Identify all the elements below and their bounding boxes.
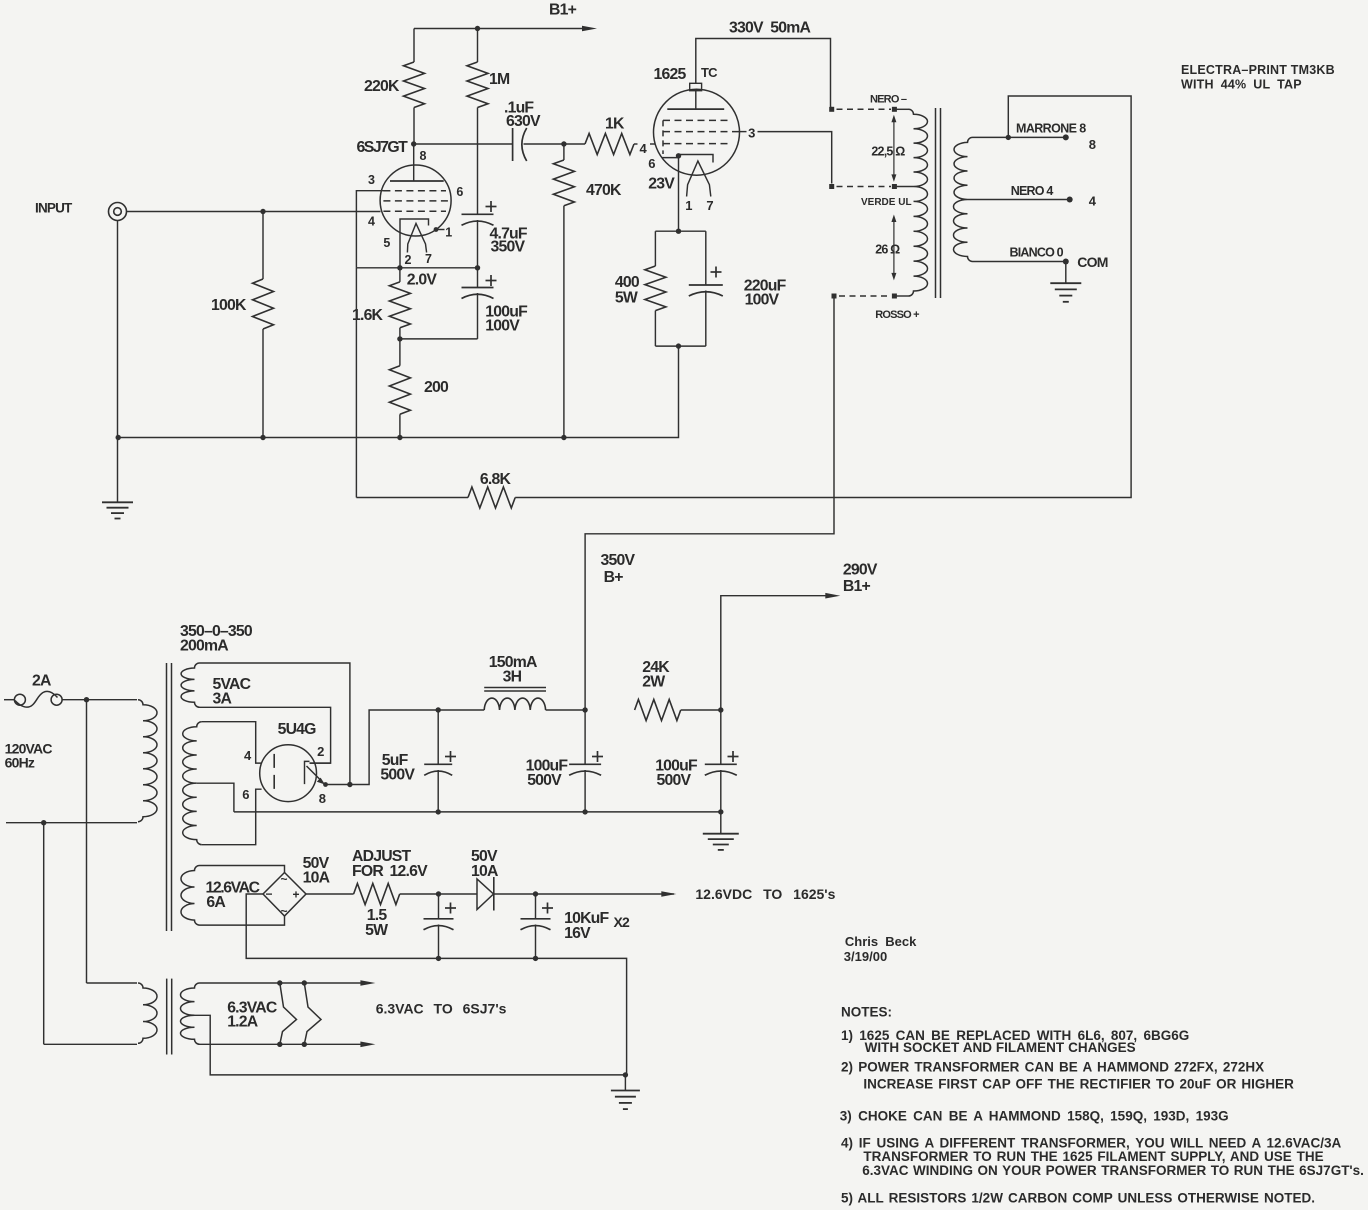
wire [831, 107, 832, 110]
wire 8 ohm tap [973, 136, 1066, 138]
impedance arrow NERO-VERDE [893, 118, 895, 178]
junction [302, 1042, 307, 1047]
1625 plate lead to top cap [695, 91, 697, 109]
ground (input) [102, 501, 133, 503]
svg-text:22,5 Ω: 22,5 Ω [871, 145, 905, 159]
svg-text:3A: 3A [213, 691, 232, 708]
6.3VAC arrow bottom [360, 1042, 375, 1048]
svg-text:6.3VAC WINDING ON YOUR POW: 6.3VAC WINDING ON YOUR POWER TRANSFORMER… [862, 1163, 1364, 1178]
ground (speaker COM) [1050, 282, 1081, 284]
svg-text:350V: 350V [491, 239, 526, 256]
wire bridge negative rail [246, 894, 626, 1075]
wire 400 top lead [654, 231, 656, 266]
junction [623, 1072, 628, 1077]
OPT NERO dashed link [837, 108, 892, 110]
svg-text:3: 3 [368, 173, 375, 187]
wire cap1 top lead [438, 894, 440, 919]
svg-text:10A: 10A [303, 870, 330, 887]
OPT core [935, 108, 937, 298]
junction [1006, 135, 1011, 140]
svg-text:TC: TC [701, 65, 718, 80]
svg-text:INCREASE FIRST CAP OFF THE: INCREASE FIRST CAP OFF THE RECTIFIER TO … [863, 1077, 1294, 1092]
wire to choke [438, 709, 484, 711]
wire pin3 suppressor to box [356, 191, 383, 268]
wire 100uF#1 bottom lead [584, 770, 586, 812]
tube V2 1625 envelope [654, 89, 740, 175]
junction [718, 809, 723, 814]
1625 grid dashed row2 - screen pin 3 [663, 131, 739, 133]
resistor 1M [467, 62, 488, 108]
resistor 220K [404, 62, 425, 108]
junction [436, 809, 441, 814]
capacitor 100uF 500V (1) [569, 763, 601, 765]
junction [116, 435, 121, 440]
1625 cathode filament arrow [687, 161, 711, 197]
junction [277, 1042, 282, 1047]
svg-text:2: 2 [405, 253, 412, 267]
terminal 4 [1067, 197, 1073, 203]
wire hot to T3 primary [86, 700, 88, 983]
svg-text:ELECTRA–PRINT TM3KB: ELECTRA–PRINT TM3KB [1181, 63, 1335, 77]
svg-text:ROSSO +: ROSSO + [875, 309, 919, 321]
290V arrow [825, 593, 840, 599]
wire 470K top lead [563, 144, 565, 160]
wire to 6.8K [356, 497, 468, 499]
svg-text:6SJ7GT: 6SJ7GT [357, 139, 409, 156]
wire 290V B1+ takeoff [721, 596, 828, 710]
twisted pair mark 2 [304, 983, 321, 1044]
6.3VAC arrow top [360, 980, 375, 986]
resistor 470K [553, 160, 574, 206]
wire 6.3VAC center tap to ground [195, 1015, 626, 1075]
svg-text:290V: 290V [843, 562, 878, 579]
svg-text:5: 5 [383, 236, 390, 250]
wire feedback left leg [355, 268, 357, 498]
6SJ7 pin 8 plate lead [413, 144, 415, 181]
svg-text:8: 8 [1089, 137, 1096, 152]
wire 200 top lead [399, 339, 401, 366]
resistor 6.8K [468, 487, 515, 508]
wire 470K bottom lead [563, 206, 565, 438]
svg-text:TRANSFORMER TO RUN THE 162: TRANSFORMER TO RUN THE 1625 FILAMENT SUP… [863, 1149, 1323, 1164]
OPT ROSSO dashed link [839, 295, 891, 297]
T1 primary winding [138, 700, 157, 822]
capacitor 10KuF 16V #1 [424, 918, 454, 920]
wire 100uF top lead [477, 268, 479, 288]
1625 plate [667, 108, 724, 110]
junction [676, 343, 681, 348]
OPT secondary winding [953, 137, 972, 261]
svg-text:B+: B+ [604, 569, 624, 586]
wire 6.3VAC bottom lead [200, 1043, 366, 1045]
wire 100uF bottom lead [477, 293, 479, 339]
OPT primary winding [909, 109, 928, 296]
T3 6.3VAC secondary winding [180, 983, 199, 1044]
wire T3 primary bottom lead [44, 1043, 137, 1045]
junction [582, 809, 587, 814]
svg-text:500V: 500V [380, 767, 415, 784]
junction [676, 229, 681, 234]
6SJ7 grid (dashed) row 1 [383, 190, 446, 192]
svg-text:60Hz: 60Hz [5, 755, 35, 771]
tube V3 5U4G envelope [260, 745, 317, 802]
svg-text:500V: 500V [527, 772, 562, 789]
svg-text:2A: 2A [32, 673, 51, 690]
terminal pad [892, 184, 897, 189]
svg-text:2W: 2W [642, 674, 665, 691]
T1 5VAC winding [181, 663, 199, 707]
svg-text:3: 3 [748, 126, 755, 141]
junction [347, 782, 352, 787]
wire cathode RC bottom [400, 338, 478, 340]
6SJ7 grid (dashed) row 2 - control grid pin 4 [383, 200, 449, 202]
wire 220K top lead [413, 29, 415, 63]
capacitor 100uF 100V [462, 287, 494, 289]
wire 4.7uF bottom lead [477, 220, 479, 268]
svg-text:5W: 5W [615, 290, 638, 307]
svg-text:630V: 630V [506, 113, 541, 130]
svg-text:1625: 1625 [654, 66, 687, 83]
wire choke to node [546, 709, 586, 711]
terminal pad [892, 107, 897, 112]
svg-text:1M: 1M [489, 71, 510, 88]
wire 1.6K bottom lead [399, 328, 401, 339]
wire ROSSO to B+ 350V [585, 296, 834, 709]
svg-text:6A: 6A [206, 894, 225, 911]
wire cap2 top lead [535, 894, 537, 919]
wire 100uF#1 top lead [584, 710, 586, 764]
wire cathode bottom bus [356, 267, 477, 269]
wire 1M top lead [477, 29, 479, 63]
terminal pad [829, 184, 834, 189]
1625 pin3 screen wire [740, 131, 747, 133]
resistor 1.5 5W [354, 884, 400, 905]
wire B1+ rail [414, 28, 585, 30]
svg-text:4: 4 [368, 215, 375, 229]
wire to bottom ground [624, 1075, 626, 1091]
wire cathode net top [655, 230, 705, 232]
wire 200 bottom lead [399, 414, 401, 437]
svg-text:−: − [266, 887, 273, 901]
svg-text:3) CHOKE CAN BE A HAMMOND: 3) CHOKE CAN BE A HAMMOND 158Q, 159Q, 19… [840, 1109, 1229, 1124]
1625 beam plate dashed vertical [662, 120, 664, 154]
wire HV top to 5U4G pin4 [202, 722, 262, 763]
svg-text:6: 6 [242, 787, 249, 802]
wire PSU ground rail [234, 811, 721, 813]
svg-text:~: ~ [281, 904, 288, 918]
svg-text:16V: 16V [564, 925, 591, 942]
svg-text:1K: 1K [605, 116, 625, 133]
svg-text:6: 6 [648, 156, 655, 171]
1625 grid dashed row3 - control grid pin 4 [663, 143, 730, 145]
wire screen to UL tap [758, 132, 832, 184]
svg-text:~: ~ [281, 872, 288, 886]
wire to PSU ground [720, 812, 722, 834]
svg-text:470K: 470K [586, 182, 622, 199]
wire 1K to pin4 [634, 143, 638, 145]
5U4G pin2 lead [310, 762, 331, 764]
junction [561, 435, 566, 440]
wire 100uF#2 bottom lead [720, 770, 722, 812]
wire 5uF bottom lead [437, 770, 439, 812]
6SJ7 cathode bracket [400, 219, 429, 268]
svg-text:5U4G: 5U4G [278, 721, 317, 738]
wire plate top feed [696, 39, 831, 107]
svg-text:Chris Beck: Chris Beck [845, 934, 917, 949]
svg-text:400: 400 [615, 274, 640, 291]
junction plate node 6SJ7 [411, 141, 416, 146]
tube V1 6SJ7GT envelope [380, 165, 451, 236]
5U4G cathode bracket [305, 761, 310, 784]
junction [475, 265, 480, 270]
5U4G plate bar [273, 754, 275, 791]
svg-text:6.8K: 6.8K [480, 471, 512, 488]
terminal 8 [1063, 134, 1069, 140]
ground (heater/bottom) [611, 1090, 640, 1092]
capacitor 5uF 500V [424, 763, 452, 765]
wire cathode net bottom [655, 345, 705, 347]
svg-text:330V 50mA: 330V 50mA [729, 20, 810, 37]
wire plate to coupling cap [414, 143, 513, 145]
svg-text:200mA: 200mA [180, 638, 228, 655]
capacitor 4.7uF 350V [462, 213, 494, 215]
svg-text:3H: 3H [503, 669, 522, 686]
wire T3 primary top lead [87, 982, 138, 984]
resistor 100K [253, 279, 274, 329]
wire 6.3VAC top lead [200, 982, 366, 984]
wire 24K to 290V node [681, 709, 721, 711]
wire cap2 bottom lead [535, 925, 537, 959]
svg-text:7: 7 [425, 252, 432, 266]
svg-text:WITH SOCKET AND FILAMENT C: WITH SOCKET AND FILAMENT CHANGES [865, 1040, 1136, 1055]
wire 12.6VAC bottom to bridge [200, 916, 285, 925]
choke L1 150mA 3H [484, 698, 545, 710]
svg-text:100V: 100V [485, 318, 520, 335]
resistor 1.6K [389, 282, 410, 328]
junction [533, 956, 538, 961]
terminal COM [1063, 259, 1069, 265]
svg-text:500V: 500V [657, 772, 692, 789]
wire into 1625 grid [650, 143, 655, 145]
wire 1625 cathode drop [678, 156, 680, 231]
T1 core [166, 663, 168, 931]
1625 top cap [690, 83, 702, 90]
wire 100uF#2 top lead [720, 710, 722, 764]
junction [84, 697, 89, 702]
wire 1M bottom lead [477, 108, 479, 201]
junction [277, 980, 282, 985]
bridge rectifier BR1 50V 10A [263, 873, 306, 917]
wire to 1K [564, 143, 585, 145]
6SJ7 plate [390, 180, 444, 182]
wire 220uF bottom lead [705, 291, 707, 347]
svg-text:220K: 220K [364, 78, 400, 95]
wire 220K bottom lead [413, 108, 415, 145]
wire 4.7uF top lead [477, 201, 479, 215]
junction [561, 141, 566, 146]
wire diode to 12.6VDC out [494, 893, 675, 895]
svg-text:12.6VDC TO 1625's: 12.6VDC TO 1625's [695, 886, 835, 902]
T1 12.6VAC winding [181, 866, 200, 926]
wire HV center tap to ground rail [197, 783, 234, 812]
wire cap1 bottom lead [438, 925, 440, 959]
wire input ground drop [117, 221, 119, 503]
junction [676, 153, 681, 158]
terminal pad [832, 294, 837, 299]
junction [434, 227, 439, 232]
capacitor 10KuF 16V #2 [521, 918, 551, 920]
svg-text:3/19/00: 3/19/00 [844, 949, 887, 964]
junction [41, 820, 46, 825]
svg-text:350V: 350V [601, 552, 636, 569]
svg-text:2.0V: 2.0V [407, 272, 438, 289]
12.6VDC arrow [661, 891, 676, 897]
svg-text:INPUT: INPUT [35, 201, 73, 216]
input jack connector [109, 203, 127, 221]
svg-text:VERDE UL: VERDE UL [861, 197, 912, 208]
svg-text:1.2A: 1.2A [227, 1014, 258, 1031]
wire 100K top lead [262, 212, 264, 280]
resistor 400 5W [645, 266, 666, 311]
wire neutral to T3 primary [43, 823, 45, 1045]
junction [260, 435, 265, 440]
svg-text:8: 8 [319, 791, 326, 806]
wire common tap [973, 261, 1066, 263]
svg-text:6: 6 [456, 185, 463, 199]
svg-text:COM: COM [1077, 254, 1107, 270]
wire 400 bottom lead [654, 311, 656, 347]
wire 4 ohm tap [968, 199, 1070, 201]
resistor 24K 2W [635, 700, 681, 721]
svg-text:NOTES:: NOTES: [841, 1005, 892, 1020]
6SJ7 grid (dashed) row 3 [383, 210, 446, 212]
svg-text:WITH 44% UL TAP: WITH 44% UL TAP [1181, 78, 1302, 92]
1625 pin6 lead [662, 157, 679, 159]
wire mains neutral [6, 822, 137, 824]
5U4G pin 8 node [323, 782, 328, 787]
svg-text:B1+: B1+ [549, 2, 577, 19]
OPT primary winding leads [894, 108, 908, 110]
wire 5VAC bottom lead to pin2 [200, 707, 331, 763]
resistor 1K [585, 134, 634, 155]
wire bridge out to 1.5ohm [306, 893, 354, 895]
T3 primary winding [138, 983, 157, 1043]
B1+ arrow [582, 26, 597, 32]
wire rectifier output [327, 710, 439, 785]
junction [436, 891, 441, 896]
wire 220uF top lead [705, 231, 707, 285]
wire 1.5 to diode [400, 893, 477, 895]
svg-text:23V: 23V [648, 176, 675, 193]
wire feedback from 8ohm tap [515, 96, 1131, 498]
capacitor 100uF 500V (2) [705, 763, 737, 765]
junction [397, 435, 402, 440]
svg-text:2) POWER TRANSFORMER CAN B: 2) POWER TRANSFORMER CAN BE A HAMMOND 27… [841, 1060, 1264, 1075]
junction [302, 980, 307, 985]
svg-text:200: 200 [424, 379, 449, 396]
junction [533, 891, 538, 896]
svg-text:+: + [293, 888, 300, 902]
wire 100K bottom lead [262, 329, 264, 438]
svg-text:2: 2 [317, 744, 324, 759]
1625 cathode bracket [679, 155, 714, 163]
svg-text:5) ALL RESISTORS 1/2W CARB: 5) ALL RESISTORS 1/2W CARBON COMP UNLESS… [841, 1191, 1315, 1206]
wire 1.6K top lead [399, 268, 401, 282]
OPT VERDE dashed link [837, 186, 892, 188]
junction [436, 707, 441, 712]
wire mains hot lead [4, 699, 14, 701]
T1 HV winding 350-0-350 [183, 722, 202, 845]
6SJ7 cathode filament arrow [407, 224, 426, 253]
capacitor .1uF 630V [512, 128, 514, 161]
svg-text:100V: 100V [745, 292, 780, 309]
junction [397, 265, 402, 270]
wire 12.6VAC top to bridge [200, 866, 285, 873]
1625 grid dashed row1 [663, 119, 730, 121]
wire main ground bus [118, 346, 678, 437]
svg-text:1: 1 [685, 198, 692, 213]
svg-text:NERO 4: NERO 4 [1011, 184, 1054, 198]
svg-text:MARRONE 8: MARRONE 8 [1016, 122, 1086, 136]
svg-text:X2: X2 [614, 914, 631, 930]
junction [718, 707, 723, 712]
wire coupling cap to grid node [524, 143, 564, 145]
svg-text:8: 8 [420, 149, 427, 163]
wire input to grid [127, 211, 381, 213]
svg-text:7: 7 [706, 198, 713, 213]
junction [475, 26, 480, 31]
ground (PSU filter) [703, 833, 739, 835]
impedance arrow VERDE-ROSSO [893, 218, 895, 277]
T3 core [166, 979, 168, 1055]
junction [436, 956, 441, 961]
svg-text:1: 1 [445, 226, 452, 240]
junction [260, 209, 265, 214]
svg-text:BIANCO 0: BIANCO 0 [1010, 246, 1064, 260]
capacitor 220uF 100V [689, 284, 723, 286]
terminal pad [892, 294, 897, 299]
wire 5VAC top lead to pin8 node [200, 663, 350, 785]
twisted pair mark 1 [280, 983, 297, 1044]
svg-text:FOR 12.6V: FOR 12.6V [352, 863, 428, 880]
diode D1 50V 10A [477, 879, 494, 910]
svg-text:NERO –: NERO – [870, 94, 907, 106]
wire COM to ground [1065, 262, 1067, 284]
wire HV bottom to 5U4G pin6 [202, 789, 262, 845]
svg-text:26 Ω: 26 Ω [875, 243, 900, 257]
resistor 200 [389, 366, 410, 415]
svg-text:5W: 5W [365, 922, 388, 939]
svg-text:B1+: B1+ [843, 578, 871, 595]
5U4G filament diagonal [307, 766, 323, 782]
wire fuse to T1 primary [62, 699, 137, 701]
wire 5uF top lead [437, 710, 439, 764]
junction [582, 707, 587, 712]
terminal pad [829, 107, 834, 112]
svg-text:100K: 100K [211, 297, 247, 314]
junction [397, 336, 402, 341]
svg-text:6.3VAC TO 6SJ7's: 6.3VAC TO 6SJ7's [376, 1001, 507, 1017]
